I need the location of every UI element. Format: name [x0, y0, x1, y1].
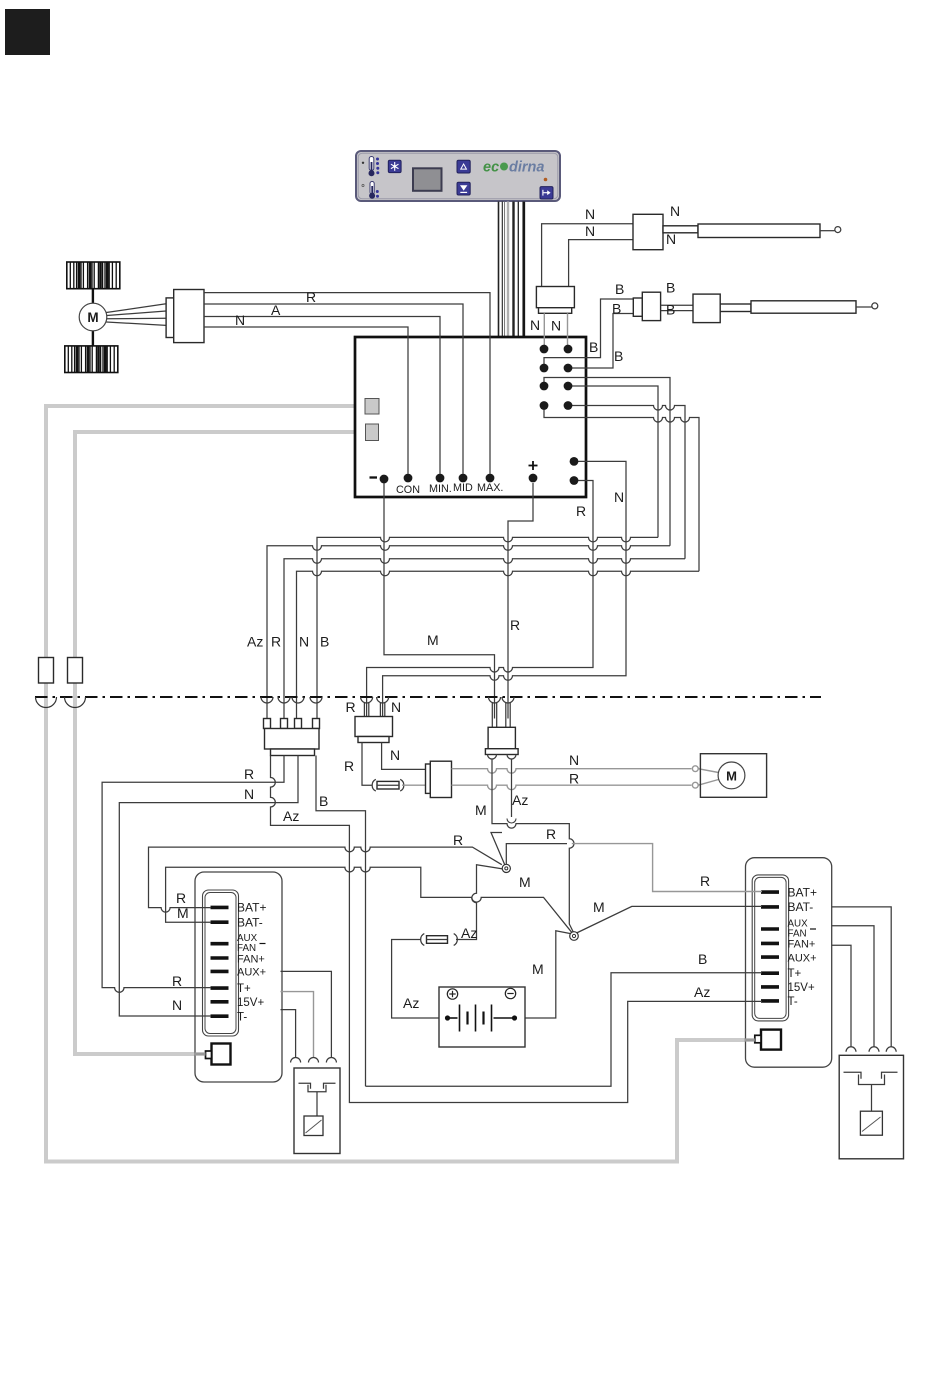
panel cable bundle — [499, 202, 524, 338]
battery minus marker — [505, 988, 515, 998]
relay 1 contact bracket — [299, 1083, 336, 1092]
wire battery minus to switch 2 — [517, 931, 571, 1018]
bulkhead pass hook gray B — [65, 697, 86, 708]
svg-text:ec: ec — [483, 160, 499, 176]
N sensor probe — [698, 224, 820, 238]
svg-text:M: M — [87, 310, 98, 325]
svg-text:R: R — [510, 617, 520, 633]
up button — [457, 160, 470, 173]
label plus — [529, 461, 538, 470]
svg-text:M: M — [593, 899, 605, 915]
svg-text:Az: Az — [694, 984, 710, 1000]
svg-text:B: B — [614, 348, 623, 364]
B sensor probe — [751, 301, 856, 313]
switch 1 output wire R to right BAT+ — [506, 844, 567, 866]
B sensor probe stem — [720, 304, 751, 312]
svg-text:T-: T- — [237, 1012, 247, 1024]
svg-text:15V+: 15V+ — [237, 997, 264, 1009]
switch 1 arm — [491, 833, 506, 867]
enter button — [540, 187, 553, 199]
bulkhead pass hooks pump connector — [489, 697, 515, 703]
wire N2 (defrost sensor to connector) — [569, 240, 633, 287]
left block terminal bars — [211, 907, 229, 1016]
left block plug — [206, 1044, 231, 1065]
wire R (connector to fan motor 2) — [452, 785, 692, 790]
svg-text:B: B — [666, 302, 675, 318]
svg-text:MAX.: MAX. — [477, 482, 503, 494]
battery box — [439, 987, 525, 1047]
svg-text:R: R — [576, 503, 586, 519]
svg-text:R: R — [306, 289, 316, 305]
terminal dot MID — [459, 474, 468, 483]
control panel body — [356, 151, 560, 201]
svg-text:R: R — [546, 826, 556, 842]
pump connector body — [488, 727, 515, 748]
bus wire 4 (N) — [297, 571, 700, 718]
svg-text:R: R — [244, 766, 254, 782]
svg-text:T+: T+ — [788, 968, 802, 980]
wire R out of connector 1 (to left T+ terminal) — [102, 756, 284, 993]
fan motor shaft — [92, 289, 94, 346]
fuse F2 — [421, 934, 458, 946]
N sensor probe tail and eyelet — [820, 227, 841, 233]
wire N out of connector 1 (to left T- terminal) — [119, 756, 298, 1017]
svg-text:Az: Az — [461, 925, 477, 941]
wire A (motor to MIN terminal) — [204, 317, 440, 474]
wire AUX/FAN- to relay 2 — [832, 926, 874, 1047]
svg-text:Az: Az — [403, 995, 419, 1011]
svg-text:R: R — [344, 758, 354, 774]
svg-text:N: N — [670, 203, 680, 219]
svg-text:Az: Az — [512, 792, 528, 808]
switch 2 M arm to right BAT- — [576, 906, 763, 933]
svg-text:BAT-: BAT- — [237, 915, 263, 929]
B sensor link wires — [661, 305, 693, 310]
thermometer icon 1 — [362, 157, 380, 177]
terminal dot MIN — [436, 474, 445, 483]
N sensor connector block — [536, 287, 574, 314]
connector 2 pin pairs — [364, 703, 384, 717]
wire fuse to motor connector — [402, 784, 426, 786]
panel display — [413, 168, 442, 191]
wire 15V+ to relay 1 — [281, 1010, 296, 1058]
connector 2 flange — [358, 737, 389, 743]
fan motor 2 box — [700, 754, 766, 798]
gray pad 1 in control box — [365, 399, 379, 415]
wire minus/M (box to pump) — [384, 483, 495, 719]
motor connector X4 — [426, 761, 452, 797]
wire N (motor to CON terminal) — [204, 327, 408, 474]
terminal dot aux N — [570, 457, 579, 466]
fuse F1 — [372, 779, 404, 791]
battery cells symbol — [445, 1005, 517, 1032]
svg-text:N: N — [235, 312, 245, 328]
wire T+ to relay 1 — [281, 992, 314, 1058]
wire B2 (box to cabin sensor) — [568, 314, 633, 369]
svg-text:N: N — [299, 634, 309, 650]
svg-text:R: R — [271, 634, 281, 650]
svg-text:M: M — [177, 905, 189, 921]
wire B1 (box to cabin sensor) — [544, 299, 633, 368]
bus wire 2 (Az) — [267, 546, 670, 719]
svg-text:B: B — [612, 301, 621, 317]
wire N1 (defrost sensor to connector) — [542, 224, 633, 287]
terminal dots right grid — [540, 345, 573, 410]
svg-text:BAT+: BAT+ — [788, 886, 817, 900]
inline connector on gray wire A — [39, 658, 54, 684]
svg-text:B: B — [319, 793, 328, 809]
left terminal block inner — [203, 890, 239, 1036]
switch 2 contact — [570, 932, 579, 941]
snowflake button — [388, 160, 401, 172]
svg-text:AUX+: AUX+ — [788, 952, 817, 964]
gray wire A tail to plug — [745, 1038, 755, 1041]
wire R (motor to MAX terminal) — [204, 293, 490, 474]
connector 1 pin sleeves — [264, 719, 320, 729]
wire (motor to MID terminal) — [204, 304, 463, 474]
wire N (box aux to pump connector area) — [383, 461, 626, 718]
svg-text:MIN.: MIN. — [429, 483, 452, 495]
wire fuse 2 to battery plus — [392, 940, 445, 1019]
relay 1 box — [294, 1068, 340, 1154]
svg-text:N: N — [585, 206, 595, 222]
B sensor holder — [693, 294, 720, 323]
wire row4-right to bus3 — [568, 406, 685, 559]
switch 1 wire to fuse 2 — [456, 865, 507, 940]
motor connector X1 — [166, 290, 204, 343]
svg-text:R: R — [453, 832, 463, 848]
svg-text:N: N — [244, 786, 254, 802]
wire plus/R (box to pump) — [508, 483, 533, 719]
svg-text:MID: MID — [453, 482, 473, 494]
N sensor probe stem — [663, 226, 698, 233]
connector 1 body — [265, 729, 320, 750]
svg-text:Az: Az — [247, 634, 263, 650]
pump connector flange — [485, 749, 518, 755]
svg-text:N: N — [666, 231, 676, 247]
svg-text:M: M — [427, 632, 439, 648]
wire R left BAT+ to switch 1 — [149, 847, 502, 912]
relay 2 pin hooks — [846, 1047, 896, 1052]
bulkhead pass hooks connector 1 — [261, 697, 322, 703]
pump connector leg hooks — [488, 755, 517, 760]
fan motor 2 eyelets — [692, 766, 718, 788]
svg-text:BAT+: BAT+ — [237, 901, 266, 915]
svg-text:BAT-: BAT- — [788, 900, 814, 914]
wire Az out of connector 1 (to right T- terminal) — [271, 756, 763, 1103]
svg-text:R: R — [346, 699, 356, 715]
svg-text:R: R — [700, 873, 710, 889]
relay 2 coil — [860, 1085, 882, 1136]
right block labels — [788, 886, 817, 1008]
wire BAT- to relay 2 — [832, 907, 892, 1047]
N sensor body — [633, 214, 663, 249]
svg-text:B: B — [589, 339, 598, 355]
right block terminal bars — [761, 892, 779, 1001]
inline connector on gray wire B — [68, 658, 83, 684]
wire row4-left to bus4 — [544, 406, 699, 572]
thermometer icon 2 — [362, 182, 379, 199]
wire Az leg of pump with end hook — [507, 759, 516, 823]
svg-text:M: M — [475, 802, 487, 818]
svg-text:N: N — [530, 317, 540, 333]
svg-text:CON: CON — [396, 484, 420, 496]
left block labels — [237, 901, 266, 1024]
gray pad 2 in control box — [366, 424, 379, 441]
svg-text:B: B — [615, 281, 624, 297]
svg-text:N: N — [390, 747, 400, 763]
motor leads to connector — [106, 304, 166, 326]
svg-text:B: B — [698, 951, 707, 967]
B sensor coupler — [633, 292, 660, 320]
svg-text:M: M — [532, 961, 544, 977]
wire N leg connector2 to motor connector — [382, 743, 426, 770]
svg-text:M: M — [519, 874, 531, 890]
control box — [355, 337, 586, 497]
terminal dot MAX — [486, 474, 495, 483]
svg-text:R: R — [172, 973, 182, 989]
label minus — [370, 476, 378, 478]
ecodirna logo — [483, 160, 544, 176]
battery plus marker — [447, 989, 457, 999]
wire B out of connector 1 (to right T+ terminal) — [316, 756, 366, 1087]
right block plug — [755, 1030, 781, 1050]
fan coil bottom (hatched) — [65, 346, 118, 373]
svg-text:N: N — [614, 489, 624, 505]
wire R (box aux to pump connector area) — [367, 481, 593, 719]
svg-text:FAN+: FAN+ — [237, 953, 265, 965]
page corner black square — [5, 9, 50, 55]
svg-text:R: R — [569, 771, 579, 787]
svg-text:N: N — [391, 699, 401, 715]
bulkhead pass hook gray A — [36, 697, 57, 708]
svg-text:FAN+: FAN+ — [788, 939, 816, 951]
relay 1 coil — [304, 1092, 323, 1136]
fan motor M1 — [79, 303, 107, 331]
gray harness wire A (control box to right unit plug) — [46, 406, 754, 1162]
svg-text:T-: T- — [788, 996, 798, 1008]
pump connector pin pairs — [492, 703, 510, 728]
svg-text:N: N — [551, 318, 561, 334]
terminal dot aux R — [570, 476, 579, 485]
svg-text:A: A — [271, 302, 281, 318]
svg-text:N: N — [172, 997, 182, 1013]
svg-text:B: B — [666, 280, 675, 296]
svg-text:B: B — [320, 634, 329, 650]
partition dash-dot line — [35, 696, 821, 698]
wire FAN+ to relay 2 — [832, 945, 851, 1047]
bulkhead pass hooks connector 2 — [361, 697, 389, 703]
wire row3-right to bus1 — [568, 386, 658, 537]
gray wire B tail to plug — [194, 1052, 206, 1055]
terminal dot plus — [529, 474, 538, 483]
svg-text:dirna: dirna — [509, 160, 544, 176]
left terminal block outer — [195, 872, 282, 1082]
svg-text:R: R — [176, 890, 186, 906]
fan coil top (hatched) — [67, 262, 120, 289]
gray harness wire B (control box to left unit plug) — [75, 432, 365, 1054]
svg-text:15V+: 15V+ — [788, 982, 815, 994]
wire row3-left to bus2 — [544, 378, 670, 546]
svg-text:M: M — [726, 768, 737, 783]
connector 2 body — [355, 717, 393, 737]
relay 1 pin hooks — [291, 1058, 337, 1063]
N sensor pins into control box — [544, 313, 567, 345]
right terminal block outer — [746, 858, 832, 1067]
svg-text:Az: Az — [283, 808, 299, 824]
bus wire 1 (B) — [317, 537, 658, 718]
relay 2 contact bracket — [844, 1072, 898, 1084]
panel led — [544, 178, 548, 182]
terminal dot CON — [404, 474, 413, 483]
terminal dot minus — [380, 475, 389, 484]
svg-text:AUX+: AUX+ — [237, 967, 266, 979]
switch 1 contact — [502, 864, 510, 872]
wire M (pump to switch 2) — [492, 759, 574, 933]
down button — [457, 182, 470, 195]
wire AUX+ to relay 1 — [281, 971, 332, 1057]
right terminal block inner — [752, 875, 788, 1021]
svg-text:T+: T+ — [237, 983, 251, 995]
wire M left BAT- to switch 2 — [166, 867, 574, 934]
wire N (connector to fan motor 2) — [452, 769, 692, 774]
relay 2 box — [839, 1055, 903, 1159]
svg-text:N: N — [585, 223, 595, 239]
fan motor 2 M — [718, 762, 745, 789]
B sensor probe tail and eyelet — [856, 303, 878, 309]
wire R leg connector2 to fuse — [362, 743, 372, 786]
svg-text:N: N — [569, 752, 579, 768]
bus wire 3 (R) — [284, 559, 685, 719]
connector 1 flange — [271, 749, 315, 756]
